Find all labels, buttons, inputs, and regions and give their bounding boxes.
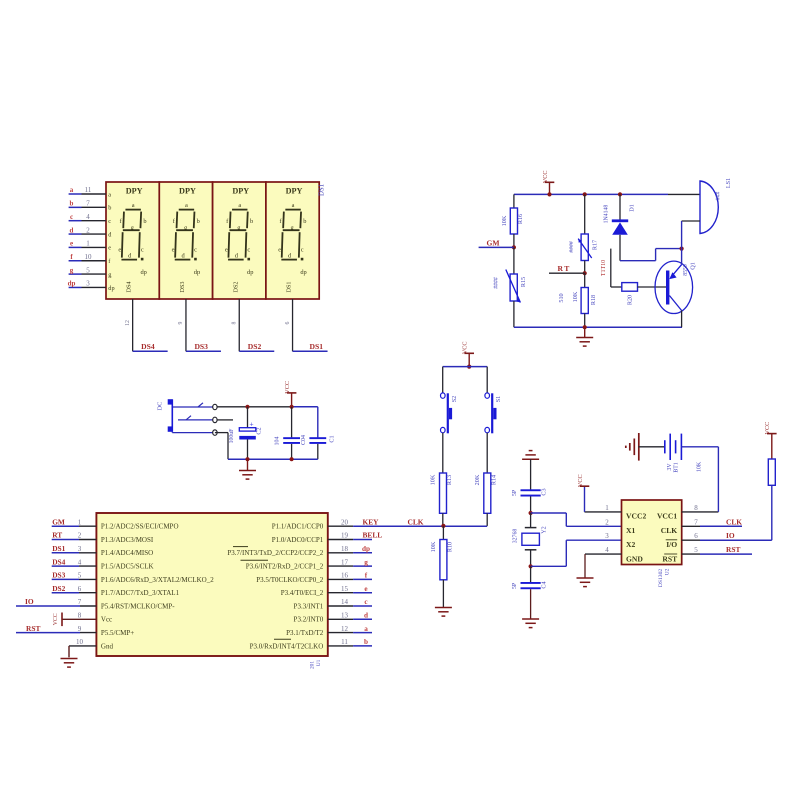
svg-text:P1.7/ADC7/TxD_3/XTAL1: P1.7/ADC7/TxD_3/XTAL1 [101, 589, 180, 597]
wire R16 to GM node [513, 234, 515, 247]
svg-text:IO: IO [726, 531, 735, 540]
resistor R20 [622, 283, 638, 292]
U1 left stub pin 2 [52, 539, 97, 541]
svg-text:10: 10 [85, 253, 93, 261]
svg-text:32768: 32768 [513, 529, 519, 544]
jack contact 2 [178, 416, 217, 423]
svg-text:14: 14 [341, 598, 349, 606]
svg-text:RT: RT [52, 531, 62, 540]
svg-text:5P: 5P [512, 582, 518, 589]
resistor R18 [581, 288, 588, 314]
transistor Q1 8550 [655, 261, 693, 313]
svg-text:DPY: DPY [126, 187, 143, 196]
display module DS1 (4x DPY 7-segment) [106, 182, 319, 299]
junction C2 bottom [245, 457, 249, 461]
resistor R14 [484, 473, 491, 513]
U1 right stub pin 18 [328, 552, 372, 554]
svg-text:10K: 10K [697, 461, 703, 472]
svg-text:e: e [108, 245, 111, 252]
svg-text:P1.6/ADC6/RxD_3/XTAL2/MCLKO_2: P1.6/ADC6/RxD_3/XTAL2/MCLKO_2 [101, 576, 214, 584]
U1 right stub pin 15 [328, 592, 372, 594]
VCC symbol far right [767, 434, 777, 459]
svg-text:6: 6 [694, 532, 698, 540]
svg-text:3: 3 [605, 532, 609, 540]
U1 right stub pin 19 [328, 539, 372, 541]
svg-text:C4: C4 [541, 581, 548, 588]
svg-text:c: c [194, 246, 197, 253]
svg-text:P1.4/ADC4/MISO: P1.4/ADC4/MISO [101, 549, 153, 557]
svg-text:DS1302: DS1302 [658, 569, 664, 588]
display pin wire g [69, 273, 106, 275]
wire R13 to CLK node [442, 513, 444, 526]
svg-text:4: 4 [78, 558, 82, 566]
ground power input [247, 459, 249, 470]
7-seg digit 2 body DPY [172, 187, 201, 293]
junction C04 bottom [290, 457, 294, 461]
svg-text:b: b [364, 638, 368, 646]
VCC symbol top rail [545, 182, 555, 195]
svg-text:D1: D1 [629, 204, 636, 212]
svg-text:11: 11 [85, 186, 92, 194]
svg-text:4: 4 [605, 546, 609, 554]
svg-text:P3.4/T0/ECI_2: P3.4/T0/ECI_2 [281, 589, 324, 597]
ground bottom rail [584, 327, 586, 337]
svg-text:DS2: DS2 [248, 342, 262, 351]
svg-text:b: b [143, 218, 146, 225]
wire collector to rail [681, 311, 683, 328]
svg-text:DS4: DS4 [52, 557, 65, 566]
svg-text:DPY: DPY [179, 187, 196, 196]
svg-text:VCC: VCC [462, 341, 469, 354]
wire RT node to R18 [584, 273, 586, 287]
junction CLK node [441, 524, 445, 528]
svg-text:c: c [247, 246, 250, 253]
svg-text:c: c [108, 218, 111, 225]
U1 left stub pin 5 [52, 578, 97, 580]
wire X1 node to DS1302 [531, 513, 622, 526]
svg-text:a: a [185, 202, 188, 209]
wire pin2 stub [217, 419, 233, 421]
svg-text:P3.7/INT3/TxD_2/CCP2/CCP2_2: P3.7/INT3/TxD_2/CCP2/CCP2_2 [227, 549, 323, 557]
svg-text:a: a [364, 625, 368, 633]
capacitor C04 104 [283, 407, 300, 459]
svg-text:9: 9 [178, 321, 184, 324]
7-seg digit 4 body DPY [278, 187, 307, 293]
svg-text:DS3: DS3 [179, 281, 186, 292]
svg-text:C2: C2 [256, 427, 263, 434]
svg-text:a: a [108, 191, 111, 198]
ground at U2 pin 4 [577, 578, 594, 587]
svg-text:R14: R14 [490, 475, 497, 485]
svg-text:10K: 10K [501, 215, 508, 226]
svg-text:5: 5 [86, 266, 90, 274]
svg-text:a: a [292, 202, 295, 209]
svg-text:KEY: KEY [363, 517, 380, 526]
display pin wire f [69, 260, 106, 262]
VCC symbol buttons [464, 353, 474, 367]
svg-text:8: 8 [694, 504, 698, 512]
wire RT stub [549, 272, 585, 274]
svg-text:DS1: DS1 [319, 184, 326, 196]
svg-text:BELL: BELL [363, 531, 383, 540]
wire R20 to Q1 base [638, 286, 667, 288]
svg-text:100uF: 100uF [229, 428, 235, 444]
svg-text:CLK: CLK [408, 517, 424, 526]
svg-text:g: g [70, 266, 74, 274]
junction buttons VCC [467, 365, 471, 369]
svg-text:12: 12 [125, 320, 131, 326]
potentiometer R17 [578, 234, 592, 261]
junction bottom rail [583, 325, 587, 329]
svg-text:7: 7 [78, 598, 82, 606]
junction R17 branch [583, 192, 587, 196]
svg-text:3: 3 [78, 545, 82, 553]
wire middle branch to R17 [584, 194, 586, 234]
svg-text:DS1: DS1 [286, 281, 293, 292]
svg-text:S2: S2 [451, 396, 458, 403]
wire R14 to CLK node [486, 513, 488, 526]
junction VCC rail [290, 405, 294, 409]
wire to S2 [442, 367, 444, 394]
svg-text:VCC: VCC [53, 613, 59, 625]
svg-text:R15: R15 [520, 277, 527, 287]
push button S2 [441, 393, 453, 433]
wire gnd to C3 [530, 459, 532, 490]
svg-text:6: 6 [78, 585, 82, 593]
resistor R11 10K pullup [768, 459, 775, 485]
wire CLK node to R10 [442, 526, 444, 540]
svg-text:P5.5/CMP+: P5.5/CMP+ [101, 629, 134, 637]
junction diode branch [618, 192, 622, 196]
svg-text:dp: dp [108, 285, 114, 292]
svg-text:13: 13 [341, 612, 349, 620]
svg-text:GM: GM [487, 238, 500, 247]
svg-text:b: b [250, 218, 253, 225]
display pin wire d [69, 233, 106, 235]
svg-text:CLK: CLK [661, 526, 678, 535]
wire bottom power rail [228, 458, 318, 460]
resistor R10 [440, 540, 447, 580]
svg-text:e: e [118, 246, 121, 253]
svg-text:5P: 5P [512, 489, 518, 496]
svg-text:LS1: LS1 [725, 178, 732, 188]
svg-text:b: b [70, 200, 74, 208]
7-seg digit 1 body DPY [118, 187, 147, 293]
svg-text:5: 5 [694, 546, 698, 554]
svg-text:P1.1/ADC1/CCP0: P1.1/ADC1/CCP0 [272, 523, 324, 531]
svg-text:P1.3/ADC3/MOSI: P1.3/ADC3/MOSI [101, 536, 154, 544]
svg-text:c: c [70, 213, 73, 221]
svg-text:dp: dp [300, 269, 306, 276]
U1 left stub pin 1 [52, 525, 97, 527]
U2 pin name I/O [666, 540, 678, 549]
U1 right stub pin 14 [328, 605, 372, 607]
svg-text:g: g [364, 558, 368, 566]
svg-text:####: #### [494, 277, 500, 289]
svg-text:P3.5/T0CLKO/CCP0_2: P3.5/T0CLKO/CCP0_2 [256, 576, 324, 584]
svg-text:17: 17 [341, 558, 349, 566]
svg-text:VCC: VCC [577, 474, 584, 487]
svg-text:Y2: Y2 [541, 526, 548, 534]
junction C2 top [245, 405, 249, 409]
svg-text:e: e [70, 240, 73, 248]
push button S1 [485, 393, 497, 433]
svg-text:7: 7 [86, 200, 90, 208]
wire GM node to R15 [513, 247, 515, 274]
U1 left stub pin 4 [52, 565, 97, 567]
digit select wire DS3 [186, 299, 221, 351]
svg-text:12: 12 [341, 625, 349, 633]
svg-text:9: 9 [78, 625, 82, 633]
wire S1 to R14 [486, 433, 488, 473]
wire bottom rail [514, 326, 682, 328]
wire BT1 to pin8 branch [681, 446, 718, 448]
diode D1 1N4148 [612, 194, 628, 260]
wire emitter to node [681, 249, 683, 265]
U2 pin name RST [662, 554, 677, 564]
svg-text:R10: R10 [446, 542, 453, 552]
digit select wire DS2 [239, 299, 274, 351]
svg-text:X2: X2 [626, 540, 635, 549]
U1 left stub pin 3 [52, 552, 97, 554]
svg-text:6: 6 [285, 321, 291, 324]
svg-text:e: e [225, 246, 228, 253]
svg-text:DS1: DS1 [52, 544, 65, 553]
U2 pin 1 wire VCC2 [585, 486, 622, 512]
capacitor C1 [309, 437, 326, 459]
svg-text:P3.3/INT1: P3.3/INT1 [294, 602, 324, 610]
U1 pin 10 wire Gnd [69, 646, 96, 657]
svg-text:10K: 10K [430, 474, 437, 485]
svg-text:b: b [303, 218, 306, 225]
svg-text:GM: GM [52, 517, 65, 526]
svg-text:8: 8 [78, 612, 82, 620]
display pin wire a [69, 193, 106, 195]
junction X2 node [529, 564, 533, 568]
wire C3 to node [530, 497, 532, 514]
wire rail to buzzer [668, 193, 700, 195]
svg-text:CLK: CLK [726, 517, 742, 526]
U1 right stub pin 16 [328, 578, 372, 580]
svg-text:P3.1/TxD/T2: P3.1/TxD/T2 [286, 629, 324, 637]
U1 pin 20 wire KEY/CLK [328, 525, 487, 527]
svg-text:1: 1 [605, 504, 609, 512]
svg-text:DS2: DS2 [232, 281, 239, 292]
svg-text:####: #### [569, 241, 575, 253]
U1 right stub pin 12 [328, 632, 372, 634]
svg-text:2: 2 [86, 226, 90, 234]
svg-text:18: 18 [341, 545, 349, 553]
wire R10 to ground [442, 580, 444, 608]
display pin wire b [69, 206, 106, 208]
ground above C3 [522, 451, 539, 460]
svg-text:a: a [70, 186, 74, 194]
wire diode anode to emitter node [620, 249, 682, 261]
svg-text:DS4: DS4 [141, 342, 155, 351]
U1 right stub pin 17 [328, 565, 372, 567]
svg-text:201: 201 [310, 661, 316, 669]
svg-text:1: 1 [78, 518, 82, 526]
svg-text:8550: 8550 [683, 264, 689, 276]
svg-text:IO: IO [25, 597, 34, 606]
display pin wire c [69, 220, 106, 222]
svg-text:VCC: VCC [764, 422, 771, 435]
ground left of BT1 [626, 433, 639, 461]
svg-text:DS2: DS2 [52, 584, 65, 593]
svg-text:dp: dp [194, 269, 200, 276]
svg-text:a: a [132, 202, 135, 209]
svg-text:104: 104 [275, 437, 281, 446]
svg-text:5: 5 [78, 572, 82, 580]
svg-text:P1.5/ADC5/SCLK: P1.5/ADC5/SCLK [101, 563, 154, 571]
svg-text:DS3: DS3 [52, 571, 65, 580]
svg-text:RST: RST [26, 624, 40, 633]
svg-text:10K: 10K [572, 291, 579, 302]
junction RT node [583, 271, 587, 275]
svg-text:b: b [108, 205, 111, 212]
VCC symbol power input [287, 393, 297, 407]
resistor R16 [510, 208, 517, 234]
MCU U1 body [96, 513, 327, 656]
svg-text:4: 4 [86, 213, 90, 221]
wire R17 to RT node [584, 261, 586, 274]
wire to S1 [486, 367, 488, 394]
jack contact 1 [173, 403, 217, 410]
photoresistor R15 [506, 270, 521, 303]
svg-text:###: ### [716, 192, 722, 201]
svg-text:RT: RT [558, 264, 571, 273]
RTC U2 DS1302 body [622, 500, 682, 565]
junction GM node [512, 245, 516, 249]
wire X2 node to DS1302 [531, 540, 622, 566]
svg-text:e: e [364, 585, 367, 593]
svg-text:b: b [197, 218, 200, 225]
7-seg digit 3 body DPY [225, 187, 254, 293]
svg-text:C1: C1 [329, 435, 336, 442]
wire top power rail [217, 407, 318, 438]
svg-text:7: 7 [694, 518, 698, 526]
svg-text:T1T10: T1T10 [601, 260, 607, 276]
buzzer LS1 [682, 181, 719, 249]
battery BT1 3V [665, 434, 682, 460]
U1 pin 8 wire Vcc [62, 618, 96, 620]
junction VCC rail [547, 192, 551, 196]
electrolytic capacitor C2 100uF [239, 407, 256, 459]
svg-text:GND: GND [626, 555, 643, 564]
svg-text:2: 2 [605, 518, 609, 526]
wire R18 to bottom rail [584, 314, 586, 328]
VCC symbol at U2 VCC2 [580, 485, 590, 487]
svg-text:R13: R13 [446, 475, 453, 485]
svg-text:1N4148: 1N4148 [604, 205, 610, 224]
wire gnd to BT1 [639, 446, 665, 448]
svg-text:c: c [141, 246, 144, 253]
U1 right stub pin 13 [328, 618, 372, 620]
svg-text:P3.2/INT0: P3.2/INT0 [294, 616, 324, 624]
svg-text:3: 3 [86, 280, 90, 288]
U1 pin 9 wire RST [16, 632, 96, 634]
svg-text:P3.6/INT2/RxD_2/CCP1_2: P3.6/INT2/RxD_2/CCP1_2 [246, 563, 324, 571]
svg-text:BT1: BT1 [674, 462, 680, 472]
svg-text:1: 1 [86, 240, 90, 248]
svg-text:RST: RST [662, 555, 677, 564]
U2 pin 4 wire GND [585, 554, 622, 578]
svg-text:11: 11 [341, 638, 348, 646]
svg-text:DPY: DPY [286, 187, 303, 196]
svg-text:R16: R16 [517, 214, 524, 224]
U2 pin 7 wire CLK [682, 525, 742, 527]
resistor R13 [440, 473, 447, 513]
svg-text:+: + [249, 420, 253, 429]
wire stub to R20 [611, 286, 622, 288]
svg-text:R17: R17 [592, 240, 599, 250]
svg-text:510: 510 [558, 293, 565, 302]
wire VCC rail top [514, 193, 668, 195]
U1 left stub pin 6 [52, 592, 97, 594]
svg-text:Gnd: Gnd [101, 642, 114, 650]
svg-text:I/O: I/O [666, 540, 677, 549]
svg-text:VCC1: VCC1 [657, 512, 677, 521]
U1 right stub pin 11 [328, 645, 372, 647]
display pin wire e [69, 246, 106, 248]
ground below R10 [435, 608, 452, 617]
svg-text:2: 2 [78, 532, 82, 540]
ground below C4 [522, 619, 539, 628]
svg-text:10: 10 [76, 638, 84, 646]
U2 pin 6 wire IO [682, 539, 772, 541]
svg-text:16: 16 [341, 572, 349, 580]
svg-text:VCC2: VCC2 [626, 512, 646, 521]
capacitor C3 5P [521, 489, 541, 496]
svg-text:c: c [301, 246, 304, 253]
svg-text:e: e [278, 246, 281, 253]
svg-text:DS3: DS3 [194, 342, 208, 351]
svg-text:DS4: DS4 [126, 281, 133, 292]
U1 pin 7 wire IO [16, 605, 96, 607]
svg-text:P1.2/ADC2/SS/ECI/CMPO: P1.2/ADC2/SS/ECI/CMPO [101, 523, 179, 531]
wire buttons top [443, 366, 488, 368]
wire R15 to bottom rail [513, 301, 515, 327]
svg-text:P1.0/ADC0/CCP1: P1.0/ADC0/CCP1 [272, 536, 324, 544]
svg-text:Vcc: Vcc [101, 616, 112, 624]
svg-text:20: 20 [341, 518, 349, 526]
svg-text:P3.0/RxD/INT4/T2CLKO: P3.0/RxD/INT4/T2CLKO [250, 642, 324, 650]
svg-text:10K: 10K [430, 541, 437, 552]
svg-text:C3: C3 [541, 488, 548, 495]
capacitor C4 5P [521, 566, 541, 619]
svg-text:15: 15 [341, 585, 349, 593]
svg-text:C04: C04 [301, 435, 307, 445]
svg-text:DS1: DS1 [310, 342, 324, 351]
svg-text:U1: U1 [316, 659, 322, 666]
svg-text:DPY: DPY [232, 187, 249, 196]
display pin wire dp [69, 286, 106, 288]
wire pullup to IO line [771, 485, 773, 540]
svg-text:P5.4/RST/MCLKO/CMP-: P5.4/RST/MCLKO/CMP- [101, 602, 175, 610]
svg-text:R20: R20 [627, 295, 634, 305]
wire pin3 down [215, 433, 228, 460]
U1 overline marks [233, 547, 291, 640]
svg-text:d: d [70, 226, 74, 234]
svg-text:RST: RST [726, 545, 740, 554]
ground at U1 pin 10 [61, 659, 78, 668]
svg-text:dp: dp [247, 269, 253, 276]
junction emitter node [680, 247, 684, 251]
svg-text:VCC: VCC [542, 170, 549, 183]
VCC symbol at U1 pin 8 [61, 613, 63, 627]
digit select wire DS4 [133, 299, 168, 351]
svg-text:dp: dp [140, 269, 146, 276]
